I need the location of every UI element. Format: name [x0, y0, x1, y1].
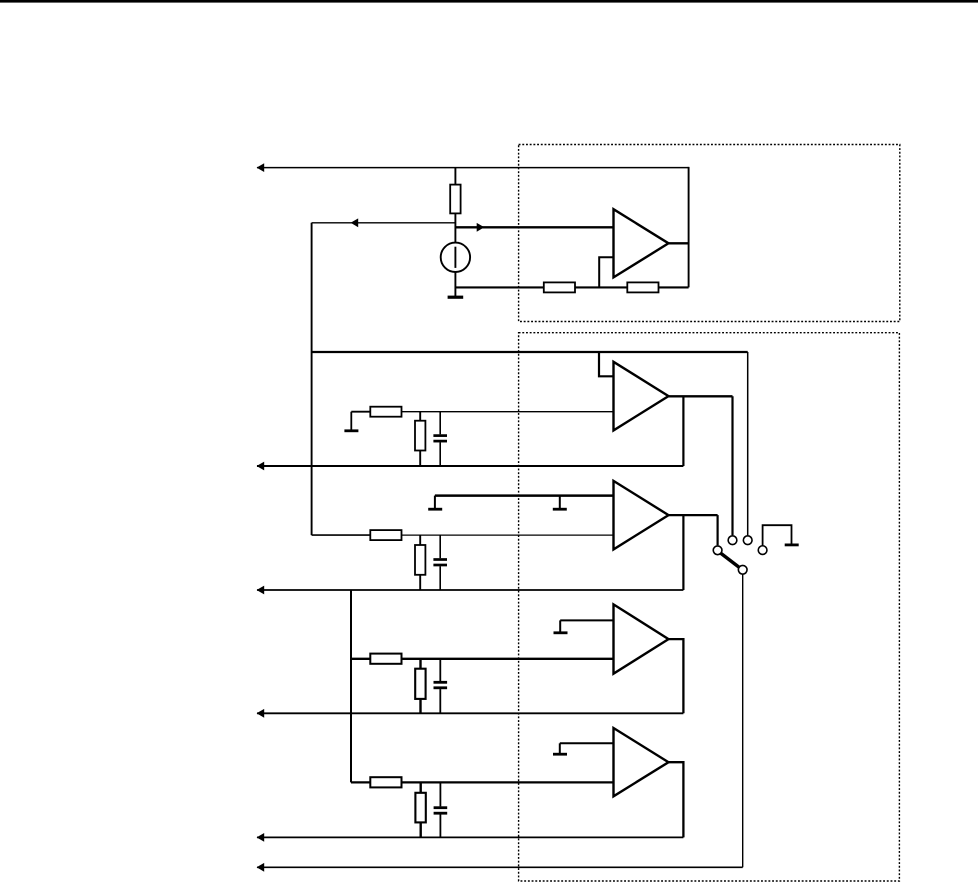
resistor R7 [415, 545, 425, 575]
wire output 2 with left arrow [257, 462, 684, 471]
resistor R11 [415, 793, 425, 823]
wire rail to U4 inverting input [351, 658, 614, 660]
wire left rail to resistor R6 [312, 534, 371, 536]
wire feedback arrow line (left arrow) [312, 218, 456, 227]
wire R9 to output 4 line [419, 699, 421, 713]
wire ground to resistor R4 [351, 411, 371, 413]
wire output 4 with left arrow [257, 709, 684, 718]
wire left rail (sections 2-3) [311, 223, 313, 535]
resistor R3 [627, 282, 658, 292]
op-amp U1 [614, 209, 669, 277]
resistor R5 [415, 421, 425, 451]
wire R11 to output 5 line [420, 822, 422, 837]
switch contact 2 [728, 536, 737, 545]
switch SW1 lever [720, 553, 742, 570]
wire output 5 with left arrow [257, 833, 684, 842]
switch contact 1 [713, 546, 722, 555]
wire output 6 with left arrow [257, 863, 743, 872]
wire ground to U4 noninverting input [560, 619, 613, 621]
capacitor C4 [434, 782, 448, 837]
op-amp U3 [614, 481, 669, 550]
wire output 1 with left arrow [257, 163, 689, 172]
wire rail down to switch contact 3 [747, 352, 749, 535]
wire switch pole to output 6 line [742, 575, 744, 868]
resistor R10 [370, 777, 401, 787]
wire U2 output down to output 2 line [682, 396, 684, 466]
wire node to shunt resistor R5 [419, 412, 421, 422]
switch contact 4 [758, 546, 767, 555]
resistor R8 [370, 654, 401, 664]
wire output 3 with left arrow [257, 586, 684, 595]
wire U3 noninverting input to grounds [435, 494, 614, 497]
wire top node to resistor R1 [454, 168, 456, 185]
ground G3b [553, 496, 567, 510]
wire U3 output down to output 3 line [682, 515, 684, 590]
ground G5 [553, 743, 567, 754]
wire node to op-amp U1 input (right arrow) [455, 223, 613, 232]
ground at switch [785, 544, 799, 547]
op-amp U2 [614, 362, 669, 431]
ground G2 [344, 412, 358, 431]
wire U1 output [667, 242, 689, 244]
ground G3a [428, 496, 442, 510]
resistor R1 [450, 185, 460, 214]
dotted enclosure box 2 [519, 333, 900, 881]
wire U5 output down to output 5 line [667, 762, 683, 837]
wire node to shunt resistor R7 [419, 535, 421, 545]
wire vertical from output 1 line down to section-1 bottom node [688, 167, 690, 288]
wire R5 to output 2 line [419, 451, 421, 467]
capacitor C1 [433, 412, 447, 466]
resistor R4 [370, 407, 401, 417]
wire R7 to output 3 line [419, 575, 421, 590]
ground below current source [448, 296, 464, 299]
wire R4 to U2 inverting input [401, 411, 614, 413]
switch contact 3 [743, 536, 752, 545]
current source I1 [441, 243, 470, 272]
switch pole contact [738, 565, 747, 574]
wire feedback tap to U1 inverting input [599, 257, 613, 287]
wire U3 output to switch contact 1 [667, 515, 718, 545]
wire R6 to U3 inverting input [401, 534, 614, 536]
wire contact 4 to ground [763, 525, 792, 545]
wire rail to U5 inverting input [351, 781, 614, 783]
wire U4 output down to output 4 line [667, 639, 683, 713]
wire node to shunt resistor R11 [420, 782, 422, 793]
ground G4 [554, 620, 568, 632]
wire current source to ground node [454, 272, 456, 297]
wire U2 output to switch contact 2 [667, 396, 733, 535]
capacitor C3 [434, 659, 448, 714]
resistor R9 [415, 669, 425, 699]
dotted enclosure box 1 [519, 145, 900, 322]
wire step to U2 noninverting input [599, 351, 614, 376]
wire ground to U5 noninverting input [560, 742, 614, 744]
wire section-2 top rail [312, 351, 748, 353]
capacitor C2 [433, 535, 447, 590]
op-amp U5 [614, 728, 669, 796]
resistor R6 [370, 530, 401, 540]
wire R1 to current source [454, 213, 456, 243]
wire left rail (sections 4-5) [350, 590, 352, 782]
wire node to shunt resistor R9 [419, 659, 421, 669]
op-amp U4 [614, 604, 669, 673]
wire section-1 bottom feedback [455, 286, 688, 288]
resistor R2 [544, 282, 575, 292]
